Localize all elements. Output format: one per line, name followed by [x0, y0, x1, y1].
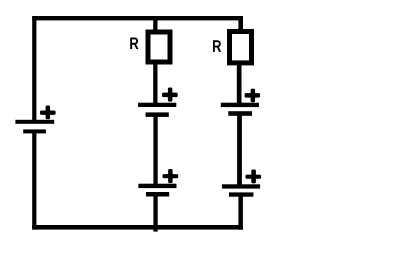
wire: battery B3 to bottom rail [153, 194, 157, 232]
wire: bottom rail [32, 225, 243, 230]
wire: resistor R2 to battery B4 [237, 62, 242, 105]
battery B5 positive plate [222, 184, 260, 188]
wire: battery B1 to bottom rail [32, 133, 36, 230]
battery B1 positive plate [15, 120, 54, 124]
battery B3 positive plate [138, 184, 176, 188]
battery B1 negative plate [23, 129, 46, 133]
wire: resistor R1 to battery B2 [153, 62, 157, 105]
resistor R1 [148, 32, 170, 62]
battery B1 polarity + label [40, 106, 56, 120]
wire: top rail corner down to resistor R2 [238, 16, 243, 31]
wire: left vertical, top rail to battery B1 [32, 16, 36, 123]
battery B4 polarity + label [245, 89, 261, 103]
battery B2 positive plate [138, 103, 176, 107]
label R (R2) [213, 40, 221, 52]
label R (R1) [130, 37, 138, 49]
wire: battery B2 to battery B3 [153, 115, 157, 185]
battery B5 negative plate [229, 192, 253, 196]
wire: top rail [32, 16, 243, 20]
battery B4 positive plate [221, 103, 259, 107]
battery B2 polarity + label [162, 88, 178, 102]
wire: battery B4 to battery B5 [237, 114, 242, 186]
wire: battery B5 to bottom rail [238, 195, 243, 230]
wire: top rail to resistor R1 [153, 19, 157, 31]
battery B5 polarity + label [246, 170, 262, 184]
battery B4 negative plate [228, 111, 252, 116]
resistor R2 [230, 32, 252, 63]
battery B2 negative plate [146, 112, 169, 117]
battery B3 negative plate [146, 192, 169, 197]
battery B3 polarity + label [163, 169, 179, 183]
